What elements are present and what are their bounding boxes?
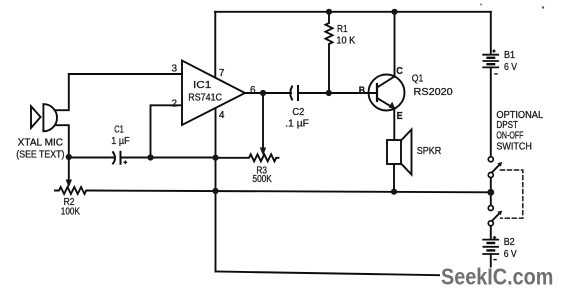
svg-text:6 V: 6 V <box>504 62 517 73</box>
wire pin 4 down <box>215 108 217 272</box>
B1 minus <box>494 73 497 75</box>
node speaker bottom <box>391 189 397 195</box>
wire emitter down <box>393 109 395 140</box>
svg-text:C2: C2 <box>292 107 304 118</box>
svg-text:RS741C: RS741C <box>188 93 222 104</box>
svg-text:.1 µF: .1 µF <box>285 119 309 130</box>
node rail-R1 <box>326 9 332 15</box>
svg-text:B2: B2 <box>504 237 515 248</box>
node pin4 row2 <box>212 188 218 194</box>
battery B2 plates <box>483 239 498 241</box>
resistor R1 zigzag <box>326 12 333 93</box>
op-amp IC1 RS741C triangle <box>182 61 245 126</box>
svg-text:B: B <box>359 85 365 96</box>
node rail-collector <box>391 9 397 15</box>
node mic junction <box>66 154 72 160</box>
svg-text:RS2020: RS2020 <box>414 87 454 98</box>
node R1 bottom <box>326 90 332 96</box>
svg-text:ON-OFF: ON-OFF <box>496 130 523 141</box>
microphone XTAL MIC cone triangle <box>31 106 41 128</box>
wire op-amp output pin 6 <box>245 92 291 94</box>
R2 wiper arrow <box>68 157 70 181</box>
wire C2 to base <box>298 92 377 94</box>
transistor Q1 circle <box>369 75 405 111</box>
svg-text:B1: B1 <box>504 50 515 61</box>
svg-text:1 µF: 1 µF <box>111 136 129 147</box>
scan speck top right <box>542 6 544 8</box>
node switch junction <box>487 189 494 196</box>
B2 plus <box>493 236 496 239</box>
svg-text:SeekIC.com: SeekIC.com <box>441 264 553 290</box>
wire mic top lead <box>56 74 69 110</box>
switch DPST section B lever <box>492 213 500 221</box>
transistor Q1 collector diagonal <box>377 76 395 87</box>
wire B2 to bottom rail <box>490 254 492 276</box>
capacitor C1 plates <box>113 152 115 163</box>
node pin2 feedback <box>147 154 153 160</box>
svg-text:C: C <box>396 66 403 77</box>
svg-text:6 V: 6 V <box>504 249 517 260</box>
watermark SeekIC.com <box>440 264 555 290</box>
svg-text:(SEE TEXT): (SEE TEXT) <box>16 149 64 160</box>
wire bottom rail <box>216 272 491 277</box>
speaker SPKR cone <box>401 130 412 175</box>
battery B1 plates <box>483 54 498 56</box>
speaker SPKR rectangle <box>387 140 401 164</box>
transistor Q1 emitter diagonal <box>377 98 395 109</box>
svg-text:Q1: Q1 <box>412 73 424 84</box>
wire pin 2 input <box>151 105 183 157</box>
switch DPST section A terminal bottom <box>488 173 493 178</box>
switch DPST section A terminal top <box>488 157 493 162</box>
battery polarity marks <box>124 49 498 259</box>
svg-text:SPKR: SPKR <box>417 146 442 157</box>
wire speaker to bottom wire <box>393 164 395 191</box>
resistor R3 zigzag <box>216 154 279 161</box>
wire long bottom row R2 to switch <box>88 191 491 193</box>
svg-text:100K: 100K <box>61 206 80 217</box>
wire pin 7 to top rail <box>214 12 216 78</box>
svg-text:XTAL MIC: XTAL MIC <box>18 137 63 148</box>
svg-text:6: 6 <box>250 85 256 96</box>
wire C1 to node <box>122 157 216 159</box>
svg-text:E: E <box>397 111 403 122</box>
R3 wiper arrow <box>262 93 264 149</box>
node pin4 row1 <box>212 155 218 161</box>
wire pin 3 input <box>69 73 182 75</box>
svg-text:500K: 500K <box>253 174 272 185</box>
microphone XTAL MIC crystal D shape <box>43 104 57 131</box>
scan speck top mid <box>480 4 482 6</box>
wire mic bottom lead <box>56 125 69 157</box>
switch DPST section B terminal top <box>488 206 493 211</box>
capacitor C2 plates <box>290 87 292 100</box>
switch dashed coupling box <box>501 170 523 218</box>
wire switch to B2 <box>490 226 492 239</box>
svg-text:2: 2 <box>172 99 178 110</box>
C1 plus <box>124 161 128 165</box>
svg-text:IC1: IC1 <box>193 80 212 91</box>
transistor Q1 base bar <box>376 84 378 101</box>
resistor R2 zigzag <box>55 187 88 194</box>
svg-text:3: 3 <box>172 63 178 74</box>
svg-text:SWITCH: SWITCH <box>496 142 532 153</box>
switch DPST section B terminal bottom <box>488 221 493 226</box>
svg-text:10 K: 10 K <box>336 35 355 46</box>
wire switch middle <box>490 178 492 205</box>
svg-text:7: 7 <box>219 68 225 79</box>
wire C1 row <box>69 157 114 159</box>
svg-text:R1: R1 <box>337 24 348 35</box>
switch DPST section A lever <box>492 165 500 173</box>
B2 minus <box>493 259 496 261</box>
wire collector to rail <box>394 12 396 77</box>
svg-text:4: 4 <box>219 110 225 121</box>
wire B1 to switch <box>490 67 492 156</box>
wire right column top (rail to B1) <box>490 12 492 54</box>
node pin6 <box>260 90 266 96</box>
svg-text:C1: C1 <box>114 125 124 136</box>
B1 plus <box>492 49 495 52</box>
wire top rail <box>215 11 491 13</box>
